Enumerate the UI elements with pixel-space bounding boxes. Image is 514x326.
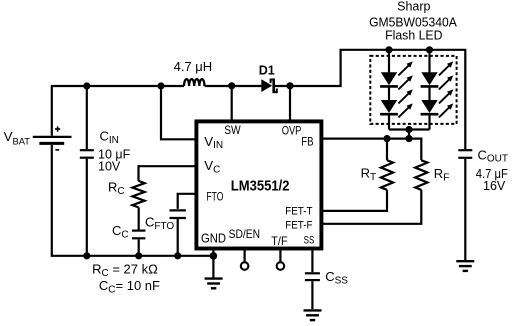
svg-text:RT: RT [361, 165, 377, 182]
wire: SS pin to CSS [311, 249, 313, 272]
wire: CSS bottom [311, 281, 313, 309]
LED D4 light arrows [439, 61, 453, 89]
node: LED string A top junction [385, 46, 392, 53]
wire: OVP pin to diode node [289, 86, 291, 121]
inductor L1 4.7 uH coil [184, 79, 204, 86]
svg-text:VBAT: VBAT [4, 129, 31, 146]
battery VBAT positive plate [33, 136, 72, 138]
wire: COUT bottom [464, 159, 466, 260]
svg-text:GND: GND [201, 231, 226, 245]
capacitor COUT [458, 150, 472, 158]
wire: FB net from pin to RF [321, 139, 421, 161]
wire: inductor to diode anode [205, 85, 262, 87]
op-amp U1 LM3551/2 body [196, 121, 321, 248]
node: CC bottom rail junction [135, 252, 142, 259]
wire: battery positive up and top rail to inductor [52, 86, 184, 136]
wire: RC to CC [138, 207, 140, 229]
LED D3 light arrows [398, 89, 412, 117]
wire: LED string B [428, 50, 430, 73]
LED D3 [380, 100, 398, 114]
node: LED return junction on FB net [405, 135, 412, 142]
wire: top rail to VIN pin [161, 86, 196, 139]
ground: COUT [456, 261, 474, 271]
wire: LED string A mid [388, 88, 390, 101]
node: GND pin junction [210, 252, 218, 260]
node: OVP junction [286, 82, 293, 89]
diode D1 schottky [261, 78, 277, 93]
resistor RT [381, 160, 393, 189]
node: LED string B top junction [426, 46, 433, 53]
node: CIN tap on top rail [83, 82, 90, 89]
battery plus sign [55, 126, 60, 131]
svg-text:FET-F: FET-F [285, 220, 313, 232]
resistor RF [415, 160, 427, 189]
ground: GND pin [205, 279, 223, 289]
svg-text:SD/EN: SD/EN [229, 227, 260, 241]
capacitor CC [132, 231, 145, 239]
svg-text:FTO: FTO [206, 191, 223, 203]
svg-text:SS: SS [304, 234, 315, 246]
node: CIN bottom rail junction [83, 252, 90, 259]
pin terminal T/F [277, 249, 285, 270]
capacitor CSS [305, 273, 320, 280]
wire: CC bottom [138, 239, 140, 255]
svg-text:CC= 10 nF: CC= 10 nF [99, 278, 160, 295]
svg-text:RC: RC [108, 179, 125, 196]
svg-text:4.7 μH: 4.7 μH [174, 59, 213, 74]
svg-text:D1: D1 [259, 64, 275, 78]
wire: GND pin down [212, 249, 214, 278]
wire: LED string B mid [428, 88, 430, 101]
svg-text:CIN: CIN [100, 129, 119, 146]
svg-text:RC = 27 kΩ: RC = 27 kΩ [92, 262, 158, 279]
wire: LED string A [388, 50, 390, 73]
wire: LED cathode rail [389, 128, 430, 130]
ground: CSS [304, 310, 322, 320]
wire: SW pin to top rail [231, 86, 233, 121]
LED D5 [421, 100, 439, 114]
wire: FTO pin to CFTO [178, 194, 196, 209]
node: SW tap on top rail [228, 82, 235, 89]
svg-text:GM5BW05340A: GM5BW05340A [369, 16, 457, 30]
svg-text:LM3551/2: LM3551/2 [231, 179, 290, 195]
capacitor CIN [80, 150, 94, 158]
node: LED rail junction [405, 126, 412, 133]
battery minus sign [55, 149, 59, 151]
svg-text:Sharp: Sharp [397, 0, 430, 14]
svg-text:FET-T: FET-T [285, 206, 313, 218]
svg-text:SW: SW [224, 124, 241, 137]
node: RT junction on FB net [383, 135, 390, 142]
svg-text:RF: RF [434, 166, 450, 183]
pin terminal SD/EN [241, 249, 249, 270]
resistor RC [132, 181, 144, 208]
wire: LED rail down to FB net [408, 130, 410, 139]
svg-text:16V: 16V [483, 179, 506, 193]
wire: LED string A bottom [388, 115, 390, 129]
svg-text:COUT: COUT [478, 147, 509, 164]
LED D2 [380, 72, 398, 86]
wire: CIN bottom [86, 159, 88, 256]
wire: RT top [386, 139, 388, 161]
svg-text:10V: 10V [98, 160, 121, 174]
svg-text:CC: CC [112, 223, 129, 240]
wire: RF bottom to FET-F pin [321, 190, 421, 224]
wire: VC pin to RC [139, 166, 196, 181]
battery VBAT negative plate [39, 142, 64, 145]
LED D4 [421, 72, 439, 86]
wire: LED string B bottom [428, 115, 430, 129]
node: CFTO bottom rail junction [174, 252, 181, 259]
wire: battery negative to bottom rail [52, 145, 214, 256]
svg-text:Flash LED: Flash LED [385, 29, 442, 43]
wire: diode cathode to OVP node and up to LED rail [275, 50, 465, 149]
svg-text:OVP: OVP [282, 124, 302, 138]
node: VIN tap on top rail [157, 82, 164, 89]
LED D5 light arrows [439, 89, 453, 117]
capacitor CFTO [170, 210, 186, 218]
LED module dashed outline (Sharp GM5BW05340A) [370, 56, 456, 124]
svg-text:FB: FB [301, 134, 313, 148]
wire: CFTO bottom [177, 219, 179, 256]
svg-text:CSS: CSS [325, 269, 348, 286]
wire: RT bottom to FET-T pin [321, 190, 387, 211]
LED D2 light arrows [398, 61, 412, 89]
svg-text:T/F: T/F [271, 234, 287, 248]
wire: CIN top [86, 86, 88, 149]
